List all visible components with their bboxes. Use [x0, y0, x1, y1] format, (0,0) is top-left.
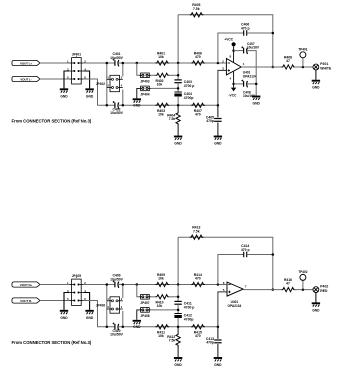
svg-text:10u/50V: 10u/50V — [110, 56, 124, 60]
wire bypass left vertical — [106, 285, 108, 327]
ground at JP408 — [133, 321, 141, 329]
junction noninverting node — [217, 104, 220, 107]
wire between shunt caps — [177, 304, 179, 313]
capacitor C407 — [241, 46, 247, 54]
wire +VCC to C407 — [234, 50, 244, 52]
svg-text:GND: GND — [60, 94, 68, 98]
junction ground rail — [255, 83, 258, 86]
junction bottom rail at divider — [177, 104, 180, 107]
wire R404 to ground — [177, 125, 179, 136]
jumper JP402 — [96, 75, 123, 91]
junction summing node mid — [177, 74, 180, 77]
wire feedback top rail — [178, 237, 273, 289]
wire integrator cap branch — [218, 33, 244, 63]
caption From CONNECTOR SECTION — [12, 340, 92, 345]
svg-text:1: 1 — [107, 297, 109, 301]
wire C407 to ground rail — [247, 51, 257, 96]
jumper JP406 — [96, 297, 123, 313]
wire bypass right vertical upper — [122, 63, 124, 77]
svg-text:7: 7 — [245, 284, 247, 288]
wire between shunt caps — [177, 83, 179, 92]
wire R410 to summing node — [169, 296, 179, 298]
svg-text:WHITE: WHITE — [320, 67, 332, 71]
ground at C413 — [214, 358, 222, 367]
svg-text:10u/50V: 10u/50V — [110, 111, 124, 115]
svg-text:470: 470 — [195, 334, 201, 338]
svg-text:GND: GND — [174, 142, 182, 146]
svg-text:GND: GND — [312, 308, 320, 312]
ground at JP405 pin 4 — [85, 311, 93, 320]
junction filter node — [177, 87, 180, 90]
junction inverting node — [217, 283, 220, 286]
svg-text:4700p: 4700p — [184, 96, 194, 100]
wire top rail to JP403 — [137, 63, 139, 75]
svg-text:GND: GND — [133, 104, 141, 108]
wire +VCC to pin 8 — [233, 46, 235, 62]
capacitor C409 — [110, 274, 124, 288]
wire integrator cap to feedback — [247, 254, 273, 256]
svg-text:-VCC: -VCC — [229, 93, 237, 97]
junction top rail to jumpers — [136, 283, 139, 286]
wire R402 to summing node — [169, 74, 179, 76]
svg-text:7.5k: 7.5k — [193, 229, 200, 233]
wire R412 to ground — [177, 346, 179, 357]
svg-text:GND: GND — [60, 316, 68, 320]
svg-text:From CONNECTOR SECTION (Ref No: From CONNECTOR SECTION (Ref No.3) — [12, 119, 92, 124]
wire bypass right vertical lower — [122, 311, 124, 327]
svg-text:10k: 10k — [158, 113, 164, 117]
junction feedback cap — [272, 253, 275, 256]
wire noninverting shunt cap upper — [217, 105, 219, 117]
svg-text:470p: 470p — [206, 341, 214, 345]
test point TP402 — [298, 270, 308, 280]
power -VCC — [229, 88, 237, 98]
svg-text:10k: 10k — [158, 277, 164, 281]
wire feedback vertical — [177, 15, 179, 63]
junction bottom rail at divider — [177, 326, 180, 329]
svg-text:470: 470 — [195, 277, 201, 281]
svg-text:+VCC: +VCC — [224, 38, 233, 42]
junction test point — [302, 288, 305, 291]
junction summing node mid — [177, 296, 180, 299]
wire bypass right vertical lower — [122, 89, 124, 105]
resistor R406 — [191, 51, 205, 65]
wire bottom rail segment B — [118, 104, 218, 106]
svg-text:TP401: TP401 — [298, 47, 308, 51]
svg-text:GND: GND — [253, 102, 261, 106]
wire test point stem — [302, 58, 304, 67]
svg-text:4700p: 4700p — [184, 317, 194, 321]
port VOUT R- — [12, 298, 40, 303]
wire VOUT R- to JP405 pin 5 — [40, 300, 69, 302]
wire JP405 pin 6 to bottom rail — [84, 301, 115, 327]
wire noninverting shunt cap upper — [217, 327, 219, 339]
svg-text:GND: GND — [174, 363, 182, 367]
capacitor C414 — [241, 244, 250, 257]
wire JP404 to ground — [137, 88, 139, 98]
svg-text:RED: RED — [320, 289, 328, 293]
svg-text:4700 p: 4700 p — [184, 305, 195, 309]
wire bottom rail to divider resistor — [177, 327, 179, 333]
wire R416 to jack — [295, 289, 314, 291]
ground at R404 — [174, 137, 182, 146]
resistor R408 — [282, 55, 296, 69]
junction summing node top — [177, 283, 180, 286]
svg-text:JP402: JP402 — [96, 82, 105, 86]
caption From CONNECTOR SECTION — [12, 119, 92, 124]
junction top-right bypass — [122, 62, 125, 65]
svg-text:JP406: JP406 — [96, 303, 105, 307]
svg-text:3: 3 — [107, 84, 109, 88]
wire integrator cap to feedback — [247, 32, 273, 34]
wire noninverting shunt cap lower — [217, 123, 219, 136]
jumper JP407 — [139, 295, 151, 306]
resistor R409 — [156, 273, 170, 287]
op-amp U401 — [223, 281, 247, 308]
capacitor C413 — [206, 337, 222, 345]
wire to noninverting input — [218, 292, 227, 327]
junction bottom-left bypass — [106, 104, 109, 107]
resistor R404 — [167, 112, 180, 126]
junction top-right bypass — [122, 283, 125, 286]
wire feedback top rail — [178, 15, 273, 67]
wire op-amp output — [243, 289, 281, 291]
svg-text:47: 47 — [286, 282, 290, 286]
test point TP401 — [298, 47, 308, 57]
svg-text:10u/50V: 10u/50V — [110, 333, 124, 337]
svg-text:7.5k: 7.5k — [169, 117, 176, 121]
wire summing vertical upper — [177, 63, 179, 80]
junction +VCC decoupling — [232, 49, 235, 52]
svg-text:4700 p: 4700 p — [184, 84, 195, 88]
junction filter node — [177, 309, 180, 312]
wire top rail segment A — [84, 62, 115, 64]
junction inverting node — [217, 62, 220, 65]
header JP405 — [67, 274, 86, 305]
ground at P402 — [312, 303, 320, 312]
svg-text:470p: 470p — [206, 119, 214, 123]
ground at JP405 pin 3 — [60, 311, 68, 320]
wire JP401 pin 4 to ground — [84, 71, 90, 88]
svg-text:GND: GND — [214, 363, 222, 367]
resistor R401 — [156, 51, 170, 65]
resistor R416 — [282, 278, 296, 292]
wire JP401 pin 3 to ground — [64, 71, 69, 88]
junction noninverting node — [217, 326, 220, 329]
wire pin 4 to -VCC — [233, 72, 235, 88]
wire to noninverting input — [218, 70, 227, 105]
svg-text:470 p: 470 p — [241, 248, 250, 252]
junction bottom-right bypass — [122, 326, 125, 329]
svg-text:10u/50V: 10u/50V — [110, 277, 124, 281]
svg-text:P402: P402 — [320, 284, 328, 288]
capacitor C401 — [110, 52, 124, 66]
svg-text:1: 1 — [107, 75, 109, 79]
wire op-amp output — [241, 66, 281, 68]
svg-text:10k: 10k — [158, 55, 164, 59]
wire JP404 to filter node — [151, 87, 178, 89]
wire JP407 to resistor — [151, 296, 156, 298]
svg-text:8: 8 — [230, 55, 232, 59]
wire bypass right vertical upper — [122, 285, 124, 299]
ground at JP401 pin 4 — [85, 89, 93, 98]
capacitor C412 — [174, 314, 193, 322]
wire cap to bottom rail — [177, 318, 179, 327]
capacitor C402 — [110, 101, 124, 115]
power +VCC — [224, 38, 235, 47]
svg-text:10u/16V: 10u/16V — [243, 94, 256, 98]
wire P402 to ground — [315, 293, 317, 303]
ground at JP401 pin 3 — [60, 89, 68, 98]
capacitor C406 — [241, 23, 250, 36]
capacitor C403 — [174, 80, 194, 88]
junction -VCC decoupling — [232, 83, 235, 86]
jumper JP404 — [139, 86, 151, 97]
wire VOUT R+ to JP405 pin 1 — [40, 284, 69, 286]
svg-text:GND: GND — [86, 316, 94, 320]
resistor R414 — [191, 273, 205, 287]
wire JP405 pin 3 to ground — [64, 293, 69, 310]
junction feedback cap — [272, 32, 275, 35]
svg-text:JP408: JP408 — [140, 314, 149, 318]
port VOUT L- — [12, 76, 40, 81]
resistor R412 — [167, 333, 180, 347]
junction feedback at output — [272, 288, 275, 291]
wire bottom rail to divider resistor — [177, 105, 179, 111]
svg-text:P401: P401 — [320, 62, 328, 66]
wire top rail to JP407 — [137, 285, 139, 297]
junction top-left bypass — [106, 283, 109, 286]
capacitor C411 — [174, 301, 194, 309]
svg-text:JP404: JP404 — [140, 93, 149, 97]
resistor R405 — [190, 3, 204, 17]
wire integrator cap branch — [218, 255, 244, 285]
wire C408 to ground rail — [247, 83, 257, 85]
svg-text:4: 4 — [121, 305, 123, 309]
svg-text:VOUT R+: VOUT R+ — [20, 283, 33, 287]
svg-text:GND: GND — [312, 86, 320, 90]
wire bypass left vertical — [106, 63, 108, 105]
svg-text:7.5k: 7.5k — [169, 339, 176, 343]
wire test point stem — [302, 280, 304, 289]
resistor R415 — [191, 325, 205, 339]
wire VOUT L- to JP401 pin 5 — [40, 78, 69, 80]
svg-text:3: 3 — [107, 305, 109, 309]
wire top rail segment B — [118, 62, 226, 64]
junction top rail to jumpers — [136, 62, 139, 65]
svg-text:VOUT L+: VOUT L+ — [20, 61, 32, 65]
resistor R410 — [155, 295, 169, 309]
wire -VCC to C408 — [234, 83, 244, 85]
capacitor C410 — [110, 323, 124, 337]
capacitor C405 — [206, 116, 222, 124]
jack P401 — [313, 62, 332, 71]
svg-text:47: 47 — [286, 59, 290, 63]
svg-text:470: 470 — [195, 55, 201, 59]
wire feedback vertical — [177, 237, 179, 284]
jack P402 — [313, 284, 328, 293]
wire top rail segment B — [118, 284, 226, 286]
resistor R402 — [155, 73, 169, 86]
svg-text:JP403: JP403 — [140, 80, 149, 84]
junction summing node top — [177, 62, 180, 65]
svg-text:GND: GND — [133, 325, 141, 329]
wire P401 to ground — [315, 70, 317, 80]
resistor R403 — [156, 103, 170, 116]
svg-text:10k: 10k — [157, 83, 163, 87]
ground at JP404 — [133, 99, 141, 107]
svg-text:10u/16V: 10u/16V — [247, 45, 260, 49]
wire cap to bottom rail — [177, 96, 179, 105]
svg-text:1: 1 — [243, 62, 245, 66]
capacitor C408 — [241, 80, 247, 88]
capacitor C404 — [174, 92, 193, 100]
svg-text:JP407: JP407 — [140, 301, 149, 305]
junction bottom-left bypass — [106, 326, 109, 329]
ground at C405 — [214, 137, 222, 146]
header JP401 — [67, 53, 86, 84]
wire summing vertical upper — [177, 285, 179, 302]
ground at R412 — [174, 358, 182, 367]
wire VOUT L+ to JP401 pin 1 — [40, 62, 69, 64]
junction bottom-right bypass — [122, 104, 125, 107]
svg-text:10k: 10k — [157, 304, 163, 308]
svg-text:10k: 10k — [158, 334, 164, 338]
wire JP403 to resistor — [151, 74, 156, 76]
svg-text:GND: GND — [86, 94, 94, 98]
svg-text:4: 4 — [230, 77, 232, 81]
junction feedback at output — [272, 66, 275, 69]
resistor R413 — [190, 226, 204, 240]
svg-text:OPA2134: OPA2134 — [228, 304, 242, 308]
resistor R411 — [156, 325, 170, 339]
junction test point — [302, 66, 305, 69]
wire JP401 pin 6 to bottom rail — [84, 79, 115, 105]
svg-text:VOUT R-: VOUT R- — [20, 299, 32, 303]
port VOUT L+ — [12, 60, 40, 65]
ground decoupling — [252, 97, 260, 106]
svg-text:VOUT L-: VOUT L- — [20, 77, 31, 81]
wire bottom rail segment B — [118, 326, 218, 328]
resistor R407 — [191, 103, 205, 116]
wire top rail segment A — [84, 284, 115, 286]
op-amp U401 — [222, 59, 257, 79]
svg-text:OPA2134: OPA2134 — [243, 74, 257, 78]
junction top-left bypass — [106, 62, 109, 65]
port VOUT R+ — [12, 282, 40, 287]
jumper JP403 — [139, 73, 151, 84]
svg-text:4: 4 — [121, 84, 123, 88]
svg-text:TP402: TP402 — [298, 270, 308, 274]
wire JP408 to ground — [137, 310, 139, 320]
svg-text:7.5k: 7.5k — [193, 7, 200, 11]
wire JP408 to filter node — [151, 309, 178, 311]
jumper JP408 — [139, 308, 151, 319]
wire JP405 pin 4 to ground — [84, 293, 90, 310]
svg-text:470 p: 470 p — [241, 26, 250, 30]
wire R408 to jack — [295, 66, 314, 68]
svg-text:From CONNECTOR SECTION (Ref No: From CONNECTOR SECTION (Ref No.3) — [12, 340, 92, 345]
svg-text:470: 470 — [195, 113, 201, 117]
ground at P401 — [312, 81, 320, 90]
wire noninverting shunt cap lower — [217, 344, 219, 357]
svg-text:GND: GND — [214, 142, 222, 146]
